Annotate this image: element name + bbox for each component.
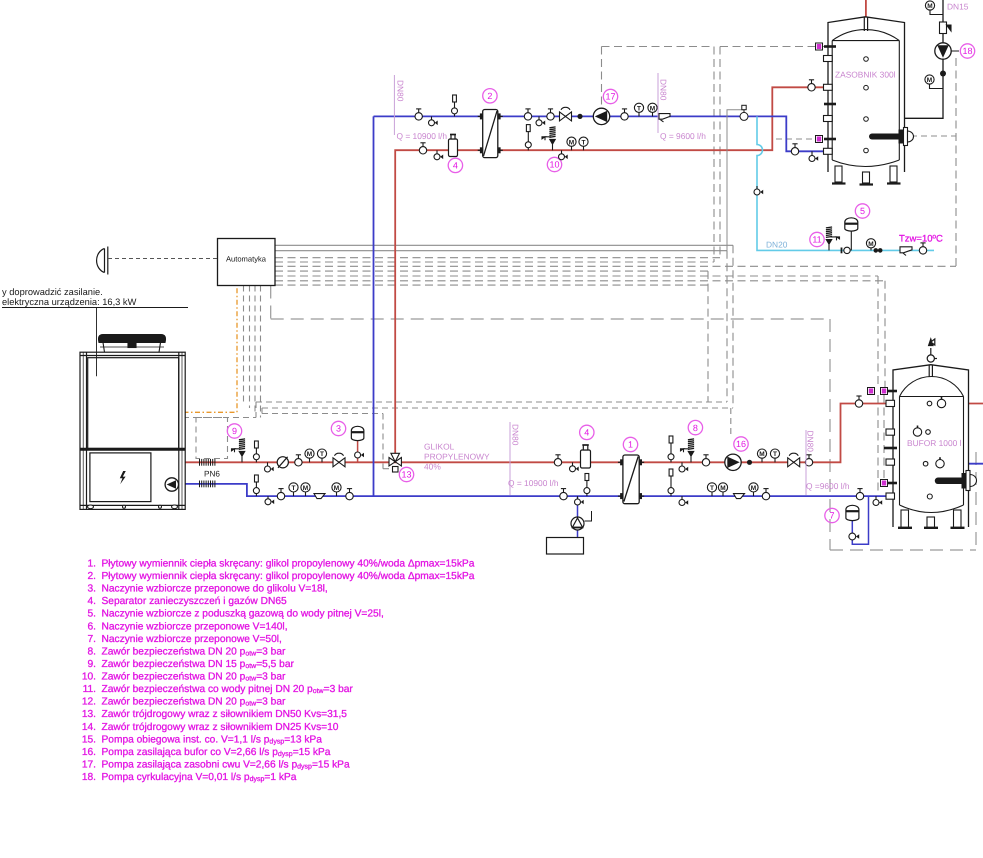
heat pump internal pump: [165, 478, 178, 491]
air vent on blue mid: [584, 474, 590, 497]
svg-text:Tzw=10ºC: Tzw=10ºC: [899, 234, 943, 245]
svg-text:6.: 6.: [88, 621, 97, 632]
wire blue lower main: [185, 484, 893, 496]
separator 4 (dirt/gas DN65): [449, 135, 458, 157]
thermometer blue right: [707, 483, 716, 496]
svg-text:10: 10: [549, 160, 559, 170]
wire cyan cold water line: [757, 116, 934, 250]
manometer blue right 2: [749, 483, 758, 496]
pump P17 cwu charging: [593, 108, 609, 124]
pump P15 heating circuit: [571, 517, 584, 530]
svg-text:Naczynie wzbiorcze z poduszką: Naczynie wzbiorcze z poduszką gazową do …: [102, 609, 384, 620]
drain below red mid: [570, 462, 579, 472]
heat exchanger U1 plate: [623, 455, 639, 504]
manometer gauge on blue: [648, 103, 657, 116]
label DN80 after pump 17: [658, 73, 669, 133]
svg-text:18: 18: [962, 46, 972, 56]
dashed link sensor square to zasobnik top: [776, 47, 824, 140]
tank bufor blue outlet valve: [923, 457, 944, 468]
wire red bufor outlet to right edge: [930, 403, 983, 405]
manometer on cold water: [866, 239, 875, 251]
svg-text:Pompa zasilająca zasobni cwu V: Pompa zasilająca zasobni cwu V=2,66 l/s …: [102, 760, 350, 771]
sensor square zasobnik mid: [816, 136, 823, 143]
valve on blue near zasobnik: [791, 144, 798, 155]
manometer lower red: [305, 449, 314, 462]
svg-text:T: T: [582, 139, 586, 146]
svg-text:Separator zanieczyszczeń i gaz: Separator zanieczyszczeń i gazów DN65: [102, 596, 287, 607]
thermometer on red: [579, 137, 588, 150]
ball valve with slash on red: [277, 457, 288, 468]
safety valve 9: [232, 439, 246, 462]
svg-text:Zawór bezpieczeństwa DN 15 pot: Zawór bezpieczeństwa DN 15 potw=5,5 bar: [102, 659, 295, 670]
svg-text:2.: 2.: [88, 571, 97, 582]
svg-text:13: 13: [401, 470, 411, 480]
long-dash boundary to bufor circuit: [271, 286, 976, 551]
valve drain pump15 branch: [575, 496, 584, 505]
wire black dhw circulation line DN15: [866, 0, 943, 118]
air vent on blue lower left: [253, 475, 259, 496]
svg-text:M: M: [650, 105, 655, 112]
thermometer blue lower: [289, 483, 298, 496]
strainer blue right: [734, 494, 745, 499]
manometer at dhw top: [925, 1, 943, 15]
wire red bufor mid stub: [905, 431, 928, 433]
svg-text:T: T: [637, 105, 641, 112]
svg-text:ZASOBNIK 300l: ZASOBNIK 300l: [835, 70, 896, 80]
svg-text:7: 7: [829, 511, 834, 521]
circled label 3: [331, 421, 345, 435]
svg-text:7.: 7.: [88, 634, 97, 645]
air vent after U1 blue: [668, 469, 674, 496]
svg-text:1: 1: [628, 440, 633, 450]
circled label 4 lower: [580, 425, 594, 439]
heat exchanger U2 plate: [483, 110, 498, 158]
safety valve 11: [826, 227, 840, 250]
svg-text:Płytowy wymiennik ciepła skręc: Płytowy wymiennik ciepła skręcany: gliko…: [102, 559, 475, 570]
svg-text:10.: 10.: [82, 672, 96, 683]
circled label 8: [688, 420, 702, 434]
note text power supply: [2, 287, 188, 376]
label DN80 lower mid: [510, 422, 521, 495]
svg-text:15.: 15.: [82, 734, 96, 745]
svg-text:T: T: [773, 451, 777, 458]
legend numbered component list: [82, 559, 475, 784]
svg-text:8.: 8.: [88, 646, 97, 657]
svg-text:Pompa obiegowa inst. co. V=1,1: Pompa obiegowa inst. co. V=1,1 l/s pdysp…: [102, 734, 323, 745]
svg-text:M: M: [868, 241, 873, 248]
label DN80 at risers: [394, 75, 405, 135]
expansion vessel 5: [845, 218, 858, 231]
svg-text:3.: 3.: [88, 584, 97, 595]
drain funnel box: [547, 538, 584, 555]
svg-text:5: 5: [860, 206, 865, 216]
tank bufor bottom drain: [927, 494, 932, 499]
svg-text:T: T: [320, 451, 324, 458]
valve red before bufor: [805, 455, 812, 466]
three-way valve 13 with actuator: [389, 453, 401, 472]
heat exchanger U2 flanges: [478, 113, 483, 119]
wire red riser from zasobnik top: [865, 0, 867, 18]
vessel 5 stem: [850, 231, 852, 251]
valve on red top line: [419, 143, 426, 154]
svg-text:DN80: DN80: [396, 80, 406, 102]
air vent after U1 red: [668, 436, 674, 462]
valve on cyan riser: [754, 186, 763, 195]
svg-text:DN20: DN20: [766, 240, 788, 250]
wire blue branch to pump 15 and drain: [577, 496, 579, 537]
svg-text:Q =9600 l/h: Q =9600 l/h: [806, 481, 850, 491]
manometer blue lower: [301, 483, 310, 496]
svg-text:Naczynie wzbiorcze przeponowe: Naczynie wzbiorcze przeponowe do glikolu…: [102, 584, 328, 595]
tank bufor mid stub valve: [913, 426, 930, 437]
svg-text:Pompa zasilająca bufor co V=2,: Pompa zasilająca bufor co V=2,66 l/s pdy…: [102, 747, 331, 758]
svg-text:Zawór trójdrogowy wraz z siłow: Zawór trójdrogowy wraz z siłownikiem DN2…: [102, 722, 339, 733]
flex connector PN6 on red: [200, 459, 215, 466]
junction circle with sensor pocket: [727, 105, 748, 250]
circled label 13: [399, 467, 413, 481]
svg-text:GLIKOL: GLIKOL: [424, 442, 455, 452]
pump P18 circulation: [935, 43, 951, 59]
svg-text:y doprowadzić zasilanie.: y doprowadzić zasilanie.: [2, 287, 103, 297]
wire red supply top circuit: [395, 87, 828, 456]
control riser to pump 17 and tank sensor (top): [602, 47, 813, 263]
wire blue riser between circuits: [373, 116, 375, 496]
manometer on red: [567, 137, 576, 150]
air vent before exchanger 2: [452, 95, 458, 116]
tank bufor legs: [898, 510, 965, 528]
svg-text:T: T: [292, 485, 296, 492]
svg-text:PN6: PN6: [204, 470, 220, 479]
shut-off valve on blue: [560, 107, 572, 121]
wire blue return top circuit: [374, 116, 828, 151]
water meter: [874, 248, 883, 253]
svg-text:Q = 9600 l/h: Q = 9600 l/h: [660, 131, 706, 141]
valve on red lower: [295, 455, 302, 466]
valve on bufor red inlet: [855, 396, 862, 407]
wire blue expansion vessel 7 loop: [852, 496, 868, 544]
circled label 17: [603, 89, 617, 103]
valve on blue lower 2: [346, 489, 353, 500]
svg-text:DN80: DN80: [806, 431, 816, 453]
valve on vessel 7 stem: [849, 533, 859, 540]
svg-text:elektryczna urządzenia: 16,3 k: elektryczna urządzenia: 16,3 kW: [2, 297, 137, 307]
tank zasobnik heater element: [872, 128, 914, 146]
svg-text:9.: 9.: [88, 659, 97, 670]
circled label 5: [855, 204, 869, 218]
safety valve 10: [542, 127, 556, 150]
valve at cold water end: [919, 243, 926, 254]
svg-text:Naczynie wzbiorcze przeponowe: Naczynie wzbiorcze przeponowe V=50l,: [102, 634, 282, 645]
dashed control line to tank heater: [911, 135, 956, 137]
circled label 18: [960, 44, 974, 58]
svg-text:M: M: [927, 3, 932, 10]
air vent at heat pump outlet: [253, 441, 259, 462]
valve on red with drain: [559, 150, 568, 160]
manometer blue lower 2: [332, 483, 341, 496]
shut-off on cold water: [842, 247, 851, 253]
manometer blue right: [718, 483, 727, 496]
backflow preventer on cold water: [900, 247, 912, 256]
tank bufor wall stubs: [884, 391, 897, 499]
drain valve at zasobnik inlet: [809, 151, 818, 161]
svg-text:M: M: [759, 451, 764, 458]
svg-text:DN15: DN15: [947, 2, 969, 12]
circled label 1: [623, 437, 637, 451]
label DN80 bufor: [806, 430, 816, 495]
circled label 9: [227, 424, 241, 438]
svg-text:M: M: [569, 139, 574, 146]
sensor square bufor 2: [881, 388, 888, 395]
svg-text:Płytowy wymiennik ciepła skręc: Płytowy wymiennik ciepła skręcany: gliko…: [102, 571, 475, 582]
circled label 10: [547, 157, 561, 171]
svg-text:M: M: [720, 485, 725, 492]
control line bundle from Automatyka to field devices: [275, 245, 733, 250]
valve after exchanger 2 on blue: [524, 109, 531, 120]
svg-text:T: T: [710, 485, 714, 492]
sensor square bufor 1: [868, 388, 875, 395]
tank zasobnik sensor wells: [864, 57, 869, 153]
svg-text:4: 4: [453, 161, 458, 171]
tank zasobnik legs: [832, 166, 901, 185]
thermometer lower red: [317, 449, 326, 462]
valve on vessel 3 stem: [355, 452, 364, 458]
tank BUFOR 1000l shell: [893, 365, 969, 527]
wire blue bufor outlet to right edge: [926, 463, 983, 465]
svg-text:DN80: DN80: [511, 424, 521, 446]
controller Automatyka box: [218, 239, 276, 286]
valve blue right: [762, 489, 769, 500]
circled label 7: [825, 508, 839, 522]
thermometer after pump16: [770, 449, 779, 462]
pump P16 bufor charging: [725, 454, 741, 470]
svg-text:4.: 4.: [88, 596, 97, 607]
svg-text:Zawór bezpieczeństwa DN 20 pot: Zawór bezpieczeństwa DN 20 potw=3 bar: [102, 672, 287, 683]
svg-text:M: M: [927, 77, 932, 84]
svg-text:16: 16: [736, 439, 746, 449]
svg-text:M: M: [334, 485, 339, 492]
svg-text:M: M: [303, 485, 308, 492]
sensor square zasobnik top: [816, 43, 823, 50]
tank ZASOBNIK 300l shell: [828, 17, 905, 172]
shut-off valve lower red: [333, 453, 345, 467]
dashed enclosure at heat-pump safety group: [173, 418, 256, 459]
drain after U1 red: [679, 462, 688, 472]
label GLIKOL PROPYLENOWY 40%: [424, 442, 490, 472]
valve after pump 17: [621, 109, 628, 120]
thermometer gauge on blue: [634, 103, 643, 116]
valve before separator 4b: [554, 455, 561, 466]
link pump 18 to label: [951, 50, 959, 52]
tank zasobnik wall ticks and stubs: [824, 47, 837, 155]
valve at zasobnik red inlet: [808, 80, 815, 91]
air vent after exchanger 2 red: [525, 125, 531, 151]
valve circle on blue: [547, 109, 554, 120]
svg-text:5.: 5.: [88, 609, 97, 620]
junction dot after pump 16: [747, 460, 752, 465]
svg-text:Q = 10900 l/h: Q = 10900 l/h: [508, 478, 559, 488]
control risers descending to lower circuit: [708, 58, 956, 494]
heat pump fan cowl: [99, 335, 166, 353]
svg-text:17.: 17.: [82, 760, 96, 771]
svg-text:16.: 16.: [82, 747, 96, 758]
svg-text:18.: 18.: [82, 772, 96, 783]
heat pump feet: [88, 505, 178, 509]
circled label 2: [483, 89, 497, 103]
tank bufor top stub and vent: [927, 339, 937, 377]
orange power supply dash-dot line from heat pump to Automatyka: [172, 286, 237, 413]
svg-text:2: 2: [487, 91, 492, 101]
drain valve below blue line: [536, 116, 545, 125]
ball joint on circulation: [940, 71, 946, 77]
check valve on circulation: [940, 22, 952, 34]
svg-text:4: 4: [584, 428, 589, 438]
drain stub near bufor: [873, 496, 882, 505]
tank zasobnik top stub: [864, 18, 867, 32]
valve on blue top line: [415, 109, 422, 120]
heat exchanger U1 flanges: [618, 459, 623, 465]
circled label 11: [810, 232, 824, 246]
drain below blue lower: [265, 496, 274, 505]
flex connector PN6 on blue: [200, 481, 215, 488]
svg-text:M: M: [751, 485, 756, 492]
svg-text:11.: 11.: [83, 684, 96, 695]
svg-text:Automatyka: Automatyka: [226, 255, 267, 264]
strainer on blue lower: [314, 494, 325, 499]
svg-text:M: M: [307, 451, 312, 458]
svg-text:DN80: DN80: [659, 79, 669, 101]
svg-text:9: 9: [232, 426, 237, 436]
tank bufor heater element: [938, 471, 977, 491]
svg-text:Zawór bezpieczeństwa DN 20 pot: Zawór bezpieczeństwa DN 20 potw=3 bar: [102, 697, 287, 708]
dashed link sensor to Automatyka: [108, 258, 218, 260]
manometer after pump16: [757, 449, 766, 462]
svg-text:40%: 40%: [424, 462, 441, 472]
svg-text:12.: 12.: [82, 697, 96, 708]
heat pump cabinet: [80, 352, 185, 509]
svg-text:14.: 14.: [82, 722, 96, 733]
svg-text:11: 11: [812, 235, 821, 245]
svg-text:Naczynie wzbiorcze przeponowe: Naczynie wzbiorcze przeponowe V=140l,: [102, 621, 288, 632]
svg-text:Zawór trójdrogowy wraz z siłow: Zawór trójdrogowy wraz z siłownikiem DN5…: [102, 709, 348, 720]
drain valve below blue: [429, 116, 438, 125]
drain below red lower: [265, 462, 274, 472]
drain below red: [434, 150, 443, 160]
valve before pump 16: [702, 455, 709, 466]
valve on blue lower: [277, 489, 284, 500]
svg-text:1.: 1.: [88, 559, 97, 570]
circled label 4: [448, 158, 462, 172]
svg-text:Zawór bezpieczeństwa DN 20 pot: Zawór bezpieczeństwa DN 20 potw=3 bar: [102, 646, 287, 657]
valve on blue mid: [560, 489, 567, 500]
svg-text:PROPYLENOWY: PROPYLENOWY: [424, 452, 490, 462]
check valve on blue: [659, 114, 670, 122]
safety valve 8: [681, 439, 695, 462]
control pair to lower-left valves and pump 16: [244, 286, 734, 469]
pump 15 outlet bracket: [585, 511, 592, 521]
shut-off valve after pump16: [788, 453, 800, 467]
drain after U1 blue: [679, 496, 688, 505]
expansion vessel 3: [351, 426, 364, 440]
svg-text:Q = 10900 l/h: Q = 10900 l/h: [397, 131, 448, 141]
sensor square bufor 3: [881, 480, 888, 487]
svg-text:BUFOR 1000 l: BUFOR 1000 l: [907, 438, 962, 448]
svg-text:8: 8: [693, 423, 698, 433]
junction dot on blue: [577, 114, 582, 119]
outdoor temperature sensor: [97, 247, 108, 275]
svg-text:17: 17: [605, 92, 615, 102]
valve on bufor blue inlet: [856, 489, 863, 500]
wire red lower main from heat pump to bufor: [185, 404, 893, 463]
tank bufor red outlet valve: [927, 397, 946, 408]
heat pump electrical bolt mark: [120, 471, 126, 484]
svg-text:Pompa cyrkulacyjna V=0,01 l/s: Pompa cyrkulacyjna V=0,01 l/s pdysp=1 kP…: [102, 772, 297, 783]
wire red stem of expansion vessel 3: [357, 440, 359, 462]
expansion vessel 7: [846, 505, 859, 520]
circled label 16: [734, 437, 748, 451]
svg-text:3: 3: [336, 424, 341, 434]
svg-text:13.: 13.: [82, 709, 96, 720]
separator 4 lower: [581, 445, 591, 468]
manometer lower on circulation: [925, 75, 943, 89]
